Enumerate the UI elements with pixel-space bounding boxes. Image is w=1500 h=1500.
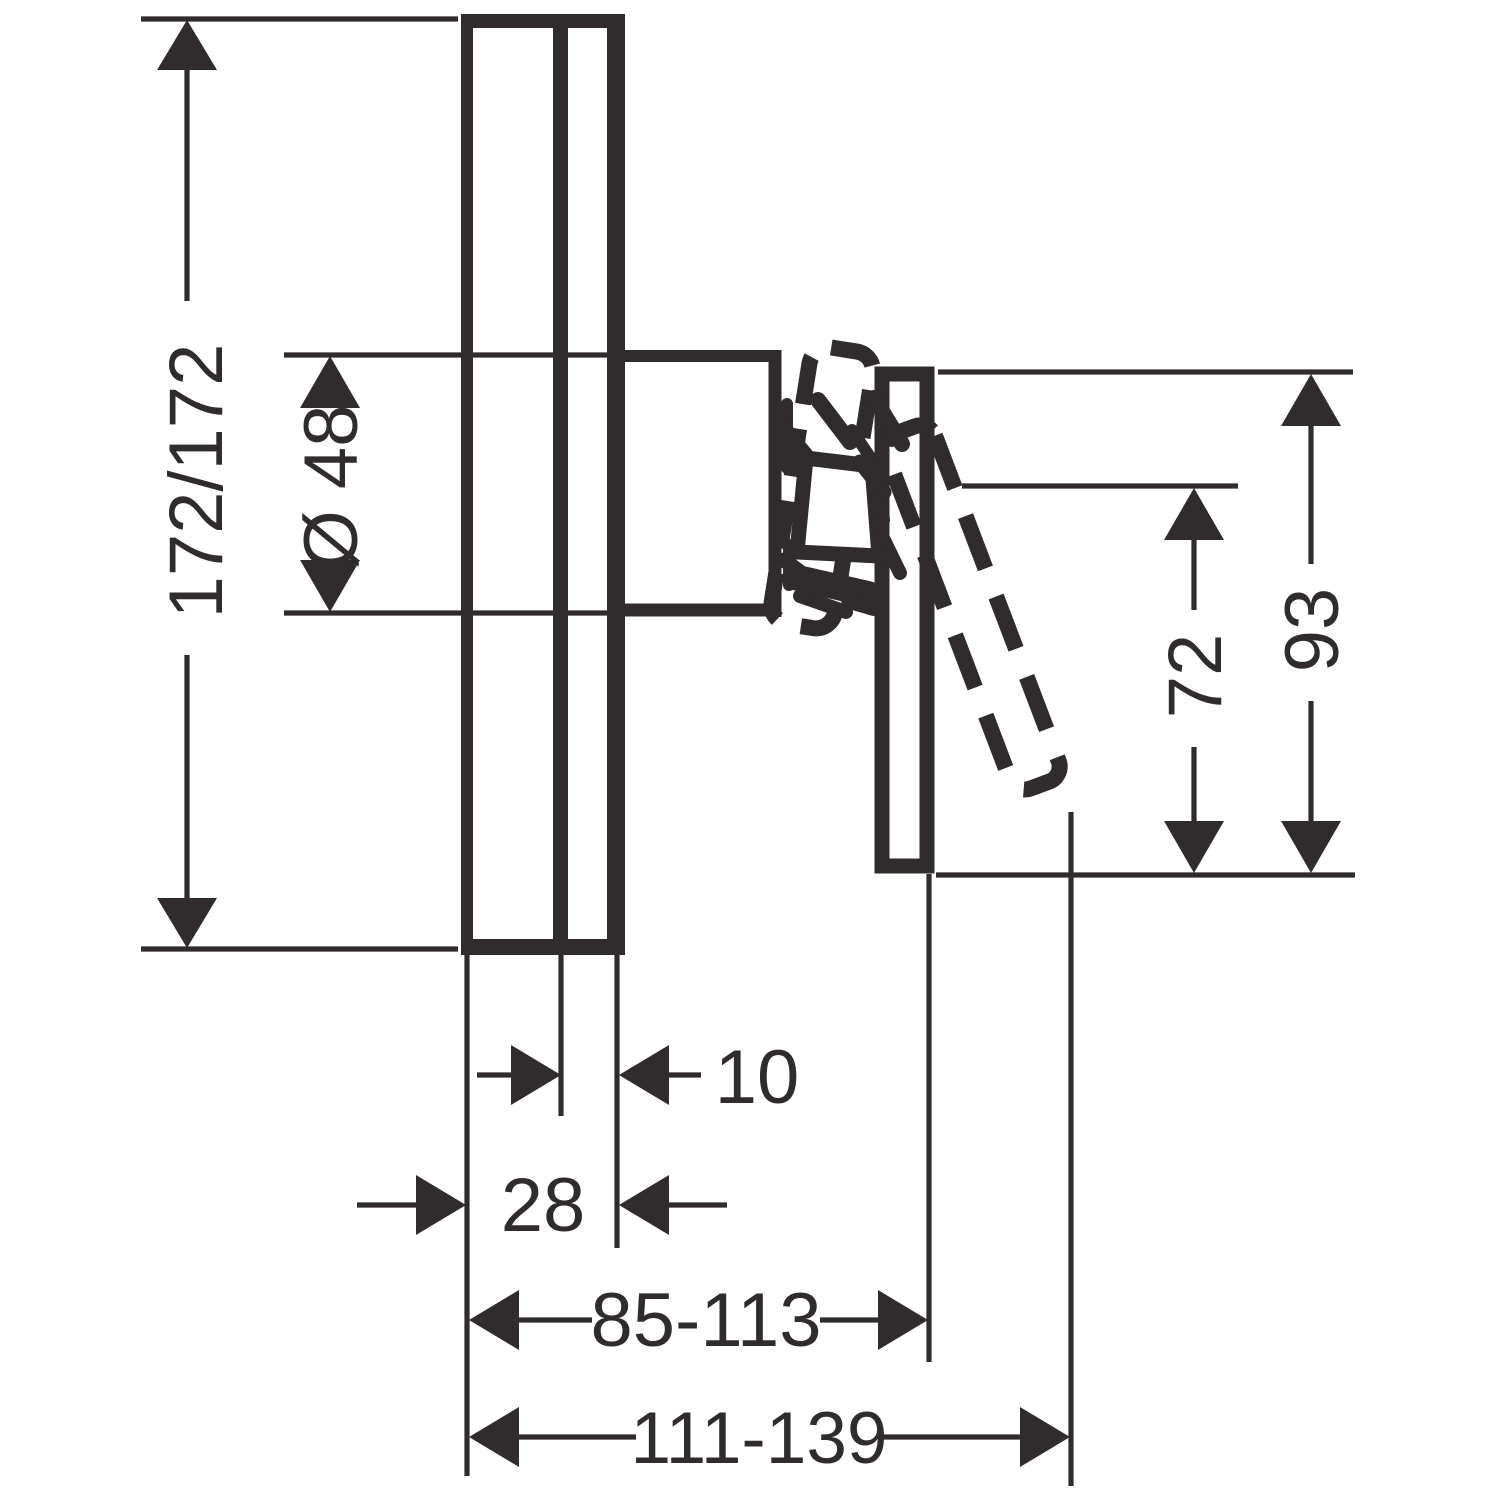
extension line below plate divider <box>558 955 563 1116</box>
dim 172/172 arrow up <box>157 20 217 70</box>
svg-text:172/172: 172/172 <box>154 344 239 619</box>
wall plate escutcheon side view <box>461 14 625 955</box>
dim 111-139 line right <box>882 1434 1024 1439</box>
dim 111-139 arrow right <box>1020 1407 1070 1467</box>
solid adapter blobs <box>784 398 902 612</box>
dim 28 arrow left <box>619 1175 669 1235</box>
dim 93 top reference line <box>938 369 1353 374</box>
extension line below plate right <box>614 955 619 1248</box>
dim 172/172 bottom reference line <box>141 946 458 951</box>
dim 111-139 arrow left <box>469 1407 519 1467</box>
dim 72 93 bottom reference line <box>936 872 1355 877</box>
dim 10 left tail <box>477 1072 512 1077</box>
svg-text:85-113: 85-113 <box>590 1278 821 1363</box>
extension line below plate left <box>464 955 469 1476</box>
extension line below lever end <box>1068 812 1073 1486</box>
dim 172/172 line lower <box>184 655 189 900</box>
dim 10 right tail <box>667 1072 701 1077</box>
dim diameter 48 top reference line <box>284 352 620 357</box>
dim 72 top reference line <box>962 483 1238 488</box>
dim 111-139 line left <box>517 1434 636 1439</box>
dim diameter 48 arrow up <box>300 356 360 408</box>
dim 85-113 arrow left <box>469 1290 519 1350</box>
dim diameter 48 arrow down <box>300 560 360 612</box>
svg-text:93: 93 <box>1270 588 1355 673</box>
dim 28 left tail <box>357 1202 416 1207</box>
svg-text:72: 72 <box>1153 634 1238 719</box>
dim 10 arrow right <box>511 1045 561 1105</box>
dim 28 arrow right <box>416 1175 466 1235</box>
handle escutcheon plate side view <box>882 374 927 866</box>
svg-text:Ø 48: Ø 48 <box>289 405 374 570</box>
dim 172/172 arrow down <box>157 898 217 948</box>
svg-text:111-139: 111-139 <box>630 1398 887 1479</box>
dim 93 arrow up <box>1281 374 1341 426</box>
dim 72 arrow down <box>1164 821 1224 873</box>
dim 85-113 line left <box>517 1317 592 1322</box>
dim 72 arrow up <box>1164 488 1224 540</box>
svg-text:10: 10 <box>715 1035 800 1120</box>
valve body housing <box>620 350 781 617</box>
extension line below handle plate <box>926 874 931 1362</box>
dim 72 line upper <box>1191 538 1196 610</box>
svg-text:28: 28 <box>501 1163 586 1248</box>
dim 93 line lower <box>1308 701 1313 824</box>
dim 85-113 arrow right <box>878 1290 928 1350</box>
dim 93 arrow down <box>1281 821 1341 873</box>
lever handle upper position (dashed) <box>769 345 876 632</box>
dim 172/172 top reference line <box>141 16 458 21</box>
dim 172/172 line upper <box>184 68 189 301</box>
handle hub trapezoid (solid, white fill) <box>797 458 879 556</box>
dim 28 right tail <box>667 1202 727 1207</box>
dim 85-113 line right <box>820 1317 883 1322</box>
dim 93 line upper <box>1308 424 1313 564</box>
dim 10 arrow left <box>619 1045 669 1105</box>
dim diameter 48 bottom reference line <box>284 610 620 615</box>
lever handle lower position (dashed) <box>885 425 1059 789</box>
dim 72 line lower <box>1191 747 1196 824</box>
